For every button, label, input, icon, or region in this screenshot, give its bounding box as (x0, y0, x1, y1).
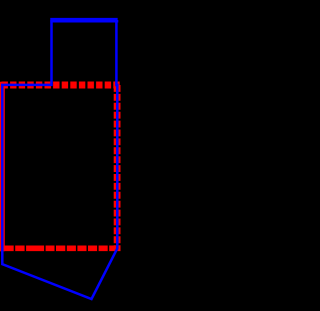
red rectangle left edge (solid) (0, 82, 5, 251)
bottom edge dash nicks (14, 245, 110, 251)
blue polygon (2, 19, 117, 299)
blue tab top edge second line (50, 20, 118, 23)
red rectangle right edge (dashed) (114, 85, 121, 251)
red rectangle top edge (dashed) (0, 82, 120, 89)
red rectangle bottom edge (solid with nicks) (0, 246, 121, 252)
